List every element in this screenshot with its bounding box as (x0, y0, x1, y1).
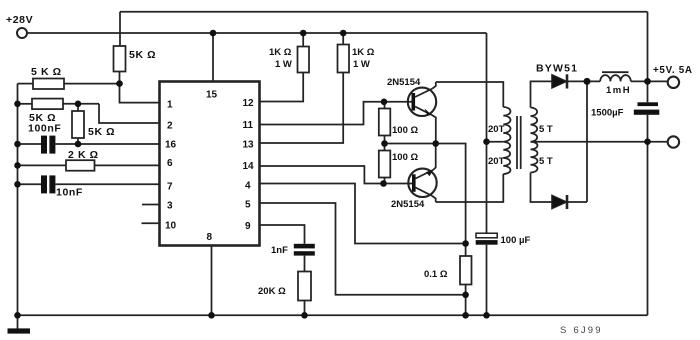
transistor Q1 2N5154 (384, 82, 436, 144)
node +5V output terminal (668, 77, 679, 88)
transistor Q2 2N5154 (384, 144, 437, 203)
wire right vertical (+5V node / feedback / cap) (647, 12, 649, 103)
svg-text:100 Ω: 100 Ω (392, 152, 418, 163)
wire secondary bottom to diode D2 (531, 173, 552, 203)
resistor R7 1K 1W (338, 33, 350, 73)
svg-text:10nF: 10nF (56, 187, 83, 199)
svg-text:4: 4 (245, 181, 251, 192)
resistor R10 100 (Q2 base) (379, 144, 391, 184)
svg-text:+28V: +28V (6, 14, 33, 26)
wire pin11 to Q1 base (260, 102, 385, 125)
wire +28V drop to center tap (486, 33, 488, 233)
wire pin4 to current sense (260, 184, 466, 244)
svg-text:7: 7 (167, 182, 173, 193)
capacitor C5 1500uF (634, 102, 660, 315)
wire pin14 to Q2 base (260, 166, 384, 184)
svg-text:100nF: 100nF (28, 123, 61, 135)
svg-text:1 W: 1 W (353, 59, 370, 70)
svg-text:1500µF: 1500µF (591, 108, 624, 119)
resistor R5 2K (18, 160, 160, 171)
wire primary center tap (487, 141, 504, 143)
transformer T1 core (517, 116, 521, 169)
wire common emitter node (385, 144, 466, 244)
svg-text:20T: 20T (488, 124, 505, 135)
svg-text:1K Ω: 1K Ω (269, 47, 292, 58)
svg-text:+5V. 5A: +5V. 5A (653, 65, 693, 76)
resistor R4 5K (vertical divider) (72, 104, 84, 144)
svg-text:20K Ω: 20K Ω (258, 286, 286, 297)
wire secondary center tap return (531, 141, 668, 143)
inductor L1 1mH (600, 72, 668, 81)
wire pin15 Vcc (212, 33, 214, 82)
resistor R3 5K (row2 horizontal) (18, 99, 100, 110)
resistor R6 1K 1W (298, 33, 310, 73)
svg-text:5K Ω: 5K Ω (88, 126, 115, 138)
svg-text:5 T: 5 T (539, 124, 553, 135)
diode D1 BYW51 (552, 74, 600, 88)
svg-text:1K Ω: 1K Ω (352, 47, 375, 58)
wire Q1 collector to primary top (436, 82, 504, 107)
resistor R8 20K (298, 272, 311, 316)
resistor R9 100 (Q1 base) (379, 102, 391, 144)
svg-text:5K Ω: 5K Ω (129, 49, 156, 61)
wire pin9 (260, 225, 305, 244)
svg-text:2: 2 (167, 121, 173, 132)
svg-text:15: 15 (206, 90, 218, 101)
wire Q2 collector to primary bottom (436, 174, 504, 202)
capacitor C1 100nF (18, 136, 160, 154)
wire D2 cathode up to +5V node (586, 81, 588, 202)
transformer T1 secondary 5T+5T (531, 108, 538, 173)
resistor R1 5K (vertical, feedback) (114, 46, 126, 84)
svg-text:9: 9 (245, 221, 251, 232)
wire left rail (17, 84, 19, 329)
wire secondary top to diode (531, 81, 552, 107)
svg-text:8: 8 (207, 232, 213, 243)
svg-text:6: 6 (167, 158, 173, 169)
wire pin5 (260, 203, 466, 295)
svg-text:13: 13 (243, 140, 255, 151)
svg-text:1 W: 1 W (275, 59, 292, 70)
svg-text:BYW51: BYW51 (536, 63, 578, 75)
svg-text:1mH: 1mH (606, 85, 631, 96)
svg-text:11: 11 (243, 120, 254, 131)
svg-text:2N5154: 2N5154 (387, 77, 421, 88)
wire +28V rail (27, 32, 487, 34)
wire pin10 stub (142, 222, 160, 224)
svg-text:5 T: 5 T (539, 156, 553, 167)
wire pin13 (260, 73, 344, 144)
svg-text:S 6J99: S 6J99 (560, 325, 603, 336)
wire pin3 stub (142, 204, 160, 206)
svg-text:2N5154: 2N5154 (391, 199, 425, 210)
node +28V input terminal (17, 28, 27, 38)
node return output terminal (668, 136, 679, 147)
capacitor C4 100uF (476, 233, 498, 315)
svg-text:2 K Ω: 2 K Ω (68, 149, 99, 161)
svg-text:14: 14 (243, 161, 255, 172)
wire pin8 ground (211, 246, 213, 316)
op-amp U1 control IC box (160, 82, 260, 246)
transformer T1 primary 20T+20T (503, 107, 510, 174)
svg-text:3: 3 (167, 201, 173, 212)
wire bottom ground rail (18, 314, 648, 316)
wire pin2 (99, 104, 160, 123)
svg-text:5 K Ω: 5 K Ω (31, 66, 62, 78)
svg-text:1nF: 1nF (271, 245, 288, 256)
svg-text:1: 1 (167, 100, 173, 111)
wire pin12 (260, 73, 304, 102)
diode D2 (552, 195, 587, 209)
svg-text:10: 10 (165, 221, 177, 232)
svg-text:5: 5 (245, 200, 251, 211)
svg-text:16: 16 (165, 140, 177, 151)
resistor R11 0.1 ohm current sense (460, 244, 472, 316)
capacitor C2 10nF (18, 175, 160, 193)
resistor R2 5K (row1 horizontal) (18, 79, 120, 90)
svg-text:0.1 Ω: 0.1 Ω (424, 269, 448, 280)
svg-text:100 Ω: 100 Ω (392, 125, 418, 136)
svg-text:12: 12 (243, 98, 255, 109)
wire top feedback rail (120, 11, 648, 13)
svg-text:100 µF: 100 µF (501, 235, 531, 246)
wire pin1 (120, 84, 160, 103)
svg-text:20T: 20T (488, 156, 505, 167)
wire feedback drop to 5K (119, 12, 121, 46)
ground (8, 328, 31, 333)
capacitor C3 1nF (294, 244, 315, 272)
